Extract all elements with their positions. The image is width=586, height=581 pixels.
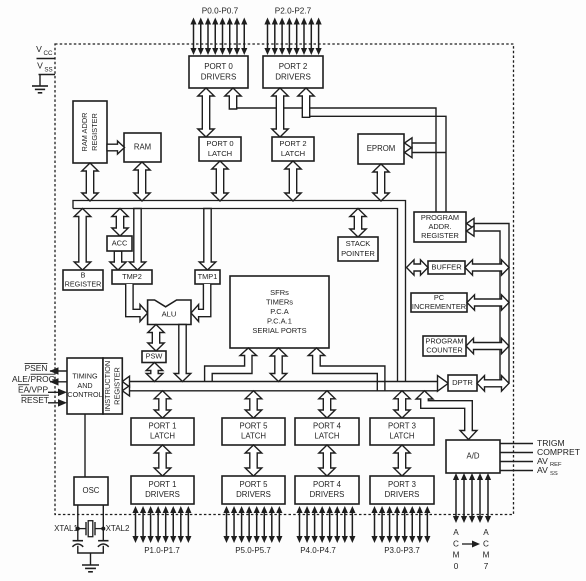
svg-text:LATCH: LATCH	[241, 432, 266, 441]
svg-text:M: M	[453, 551, 460, 560]
wire OSC to XTAL2	[102, 505, 104, 529]
arrow bus - B REGISTER	[74, 209, 91, 271]
pin arrow P2.2	[279, 18, 285, 56]
net label AVREF	[537, 456, 562, 468]
svg-text:PORT 5: PORT 5	[240, 421, 269, 430]
block PC INCREMENTER	[411, 293, 467, 312]
svg-text:PORT 0: PORT 0	[204, 62, 233, 71]
block PORT 2 LATCH	[272, 137, 314, 161]
wire AVSS	[500, 470, 533, 472]
main internal bus bar	[73, 201, 406, 382]
svg-text:PORT 4: PORT 4	[313, 421, 342, 430]
wire stub into EPROM upper	[409, 142, 436, 144]
svg-text:CC: CC	[44, 50, 53, 57]
pin arrow P3.0	[371, 506, 377, 543]
block INSTRUCTION REGISTER	[103, 358, 122, 414]
wire VCC to border	[37, 58, 56, 60]
block STACK POINTER	[338, 237, 378, 261]
svg-text:ADDR.: ADDR.	[429, 222, 452, 231]
arrow PC INCREMENTER - right bus	[467, 295, 509, 310]
svg-text:BUFFER: BUFFER	[431, 263, 462, 272]
pin arrow P5.1	[231, 506, 237, 543]
block A/D	[446, 440, 500, 473]
svg-text:REGISTER: REGISTER	[421, 231, 459, 240]
signal PSEN	[25, 363, 48, 373]
block PORT 4 LATCH	[295, 418, 359, 445]
block EPROM	[358, 134, 404, 164]
arrow SFR - bus wire	[270, 348, 287, 382]
svg-text:PORT 5: PORT 5	[240, 480, 269, 489]
pin arrow P1.3	[155, 506, 161, 543]
arrow bus - A/D (bent)	[416, 391, 477, 440]
arrow PORT2 DRIVERS - PORT2 LATCH	[272, 88, 288, 137]
pin arrow ACM2 analog input 2	[469, 473, 475, 523]
wire to ground	[90, 553, 92, 565]
svg-text:TIMING: TIMING	[72, 372, 98, 381]
svg-text:V: V	[36, 44, 42, 54]
block BUFFER	[428, 261, 465, 274]
pin arrow P4.3	[319, 506, 325, 543]
svg-text:P1.0-P1.7: P1.0-P1.7	[144, 546, 180, 555]
ALU	[148, 300, 191, 325]
pin arrow P3.6	[417, 506, 423, 543]
svg-text:SS: SS	[550, 471, 558, 477]
wire TIMING to OSC	[84, 414, 86, 477]
svg-text:DRIVERS: DRIVERS	[310, 490, 345, 499]
pin arrow P3.4	[402, 506, 408, 543]
arrow bus to TMP2 right	[129, 209, 146, 271]
pin arrow P0.2	[205, 18, 211, 56]
wire AVREF	[500, 461, 533, 463]
block PROGRAM COUNTER	[423, 336, 466, 356]
svg-text:ALE/: ALE/	[12, 374, 31, 384]
block PORT 5 DRIVERS	[222, 476, 285, 504]
svg-text:STACK: STACK	[346, 239, 371, 248]
block PORT 0 DRIVERS	[189, 56, 248, 88]
crystal	[76, 521, 106, 537]
wire XTAL2 to capacitor	[102, 529, 104, 541]
pin arrow P5.4	[254, 506, 260, 543]
capacitor C2	[98, 541, 109, 547]
arrow bus wire to SFR right (bent)	[308, 348, 385, 391]
block ACC	[107, 236, 132, 251]
pin arrow P0.1	[198, 18, 204, 56]
pin arrow P5.3	[246, 506, 252, 543]
block PORT 5 LATCH	[222, 418, 285, 445]
svg-text:SS: SS	[44, 67, 52, 74]
arrowhead RESET in	[58, 399, 67, 407]
svg-text:PORT 4: PORT 4	[313, 480, 342, 489]
svg-text:DRIVERS: DRIVERS	[385, 490, 420, 499]
wire stub into EPROM lower	[409, 152, 446, 154]
svg-text:0: 0	[454, 562, 459, 571]
svg-text:EPROM: EPROM	[367, 144, 396, 153]
pin arrow P1.6	[178, 506, 184, 543]
block PROGRAM ADDR REGISTER	[414, 212, 466, 242]
svg-text:PORT 2: PORT 2	[279, 62, 308, 71]
arrow bus - ACC	[112, 209, 128, 237]
pin arrow P4.1	[304, 506, 310, 543]
arrow PSW - bus wire	[146, 363, 163, 382]
pin arrow P0.5	[227, 18, 233, 56]
svg-text:DRIVERS: DRIVERS	[275, 72, 311, 81]
net label AVSS	[537, 465, 558, 477]
wire right bus inner to PROGRAM ADDR REGISTER	[471, 231, 500, 383]
arrowhead into PROGRAM ADDR REGISTER lower	[467, 226, 475, 236]
arrow ALU - PSW	[148, 325, 164, 352]
wire internal bus lower	[128, 390, 438, 392]
pin arrow P0.6	[234, 18, 240, 56]
wire VSS down to ground	[39, 75, 41, 87]
net label ACM7 (vertical)	[483, 528, 490, 571]
arrow ACC to TMP2	[110, 251, 126, 270]
pin arrow P3.1	[379, 506, 385, 543]
block B REGISTER	[63, 270, 103, 290]
pin arrow P0.0	[190, 18, 196, 56]
svg-text:P4.0-P4.7: P4.0-P4.7	[300, 546, 336, 555]
wire VSS to border	[39, 74, 56, 76]
pin arrow P1.1	[140, 506, 146, 543]
arrow RAM ADDR REGISTER - bus	[82, 163, 98, 201]
arrow PORT2 LATCH - bus	[285, 161, 301, 201]
arrow bus - PORT 5 LATCH	[245, 391, 262, 418]
arrow bus - STACK POINTER	[350, 209, 366, 238]
svg-text:LATCH: LATCH	[208, 149, 232, 158]
svg-text:PSEN: PSEN	[25, 363, 48, 373]
pin arrow P2.5	[301, 18, 307, 56]
pin arrow P3.2	[387, 506, 393, 543]
pin arrow ACM3 analog input 3	[477, 473, 483, 523]
ground (crystal)	[82, 565, 99, 572]
svg-text:RAM ADDR: RAM ADDR	[80, 112, 89, 151]
svg-text:TMP2: TMP2	[122, 272, 142, 281]
svg-text:P.C.A: P.C.A	[270, 307, 289, 316]
pin arrow P3.5	[409, 506, 415, 543]
svg-text:C: C	[483, 539, 489, 548]
svg-text:A/D: A/D	[467, 452, 480, 461]
svg-text:REGISTER: REGISTER	[65, 279, 102, 288]
arrowhead into EPROM lower	[405, 147, 413, 157]
net label ACM0 (vertical)	[453, 528, 460, 571]
svg-text:CONTROL: CONTROL	[67, 390, 102, 399]
svg-text:RAM: RAM	[134, 143, 151, 152]
arrow PORT 1 LATCH - PORT 1 DRIVERS	[154, 445, 171, 476]
svg-text:DPTR: DPTR	[452, 378, 473, 387]
svg-text:DRIVERS: DRIVERS	[236, 490, 271, 499]
svg-text:SERIAL PORTS: SERIAL PORTS	[252, 326, 306, 335]
signal ALE/PROG	[12, 374, 55, 384]
svg-text:LATCH: LATCH	[150, 432, 175, 441]
pin arrow P2.1	[272, 18, 278, 56]
arrow bus - BUFFER left	[407, 260, 429, 275]
arrow PORT2 DRIVERS from bus wire	[298, 88, 314, 117]
wire internal bus upper	[128, 381, 438, 383]
arrow PROGRAM COUNTER - right bus	[466, 338, 509, 354]
svg-text:P.C.A.1: P.C.A.1	[267, 316, 292, 325]
pin arrow ACM analog input 4	[485, 473, 491, 523]
svg-text:REF: REF	[550, 462, 562, 468]
arrowhead bus into DPTR	[438, 376, 449, 392]
svg-text:PORT 0: PORT 0	[206, 139, 233, 148]
arrow PORT 5 LATCH - PORT 5 DRIVERS	[245, 445, 262, 476]
pin arrow P5.6	[269, 506, 275, 543]
svg-text:P2.0-P2.7: P2.0-P2.7	[275, 7, 312, 16]
svg-text:ALU: ALU	[162, 310, 177, 319]
svg-text:INCREMENTER: INCREMENTER	[412, 302, 466, 311]
arrow bus to TMP1	[199, 209, 216, 271]
svg-text:PC: PC	[434, 293, 445, 302]
arrowhead bus into INSTRUCTION REGISTER upper	[122, 376, 129, 387]
svg-text:LATCH: LATCH	[315, 432, 340, 441]
arrowhead EA/VPP in	[58, 389, 67, 397]
block DPTR	[448, 375, 477, 391]
arrow RAM - bus	[134, 162, 150, 201]
arrow PORT 4 LATCH - PORT 4 DRIVERS	[319, 445, 335, 476]
pin arrow ACM1 analog input 1	[461, 473, 467, 523]
block PORT 1 LATCH	[131, 418, 194, 445]
arrow ACM0 to ACM7	[462, 543, 475, 545]
pin arrow P0.3	[212, 18, 218, 56]
pin arrow P1.2	[148, 506, 154, 543]
arrowhead ALE/PROG out	[50, 378, 59, 386]
svg-text:RESET: RESET	[21, 395, 49, 405]
pin arrow P4.2	[312, 506, 318, 543]
arrow DPTR - right bus	[477, 376, 509, 392]
signal EA/VPP	[18, 384, 48, 394]
pin arrow P2.7	[316, 18, 322, 56]
arrow bus wire to SFR left (bent)	[205, 348, 257, 382]
block OSC	[74, 477, 108, 505]
pin arrow P2.0	[264, 18, 270, 56]
wire bus P0 drivers to program addr register	[229, 108, 436, 212]
pin arrow P4.7	[349, 506, 355, 543]
pin arrow P3.7	[424, 506, 430, 543]
pin arrow P4.5	[334, 506, 340, 543]
pin arrow P4.6	[342, 506, 348, 543]
svg-text:PROGRAM: PROGRAM	[425, 336, 463, 345]
capacitor C1	[72, 541, 83, 547]
svg-text:AV: AV	[537, 465, 548, 475]
svg-text:SFRs: SFRs	[270, 288, 289, 297]
svg-text:PORT 3: PORT 3	[388, 421, 416, 430]
pin arrow P4.0	[296, 506, 302, 543]
arrow bus - PORT 3 LATCH	[394, 391, 410, 418]
ground (VSS)	[32, 86, 48, 93]
pin arrow P0.7	[241, 18, 247, 56]
svg-text:M: M	[483, 551, 490, 560]
VCC pin label	[36, 44, 53, 57]
svg-text:A: A	[483, 528, 489, 537]
svg-text:ACC: ACC	[112, 238, 128, 247]
svg-text:TMP1: TMP1	[198, 272, 218, 281]
arrow bus - PORT 4 LATCH	[319, 391, 335, 418]
pin arrow P5.2	[239, 506, 245, 543]
arrow ALU to bus wire	[174, 325, 191, 382]
arrow BUFFER - right bus	[465, 260, 509, 275]
svg-text:P0.0-P0.7: P0.0-P0.7	[202, 7, 239, 16]
arrowhead into EPROM upper	[405, 138, 413, 148]
arrow PORT 3 LATCH - PORT 3 DRIVERS	[394, 445, 410, 476]
arrow bus - PORT 1 LATCH	[154, 391, 171, 418]
pin arrow P0.4	[219, 18, 225, 56]
svg-text:INSTRUCTION: INSTRUCTION	[103, 361, 112, 412]
svg-text:C: C	[453, 539, 459, 548]
VSS pin label	[37, 61, 53, 74]
arrow TMP2 to ALU	[126, 284, 148, 322]
block TMP2	[112, 270, 152, 284]
block PORT 0 LATCH	[199, 137, 241, 161]
svg-text:7: 7	[484, 562, 489, 571]
chip boundary (dashed)	[55, 44, 514, 515]
arrowhead bus into INSTRUCTION REGISTER lower	[122, 386, 129, 396]
svg-text:XTAL1: XTAL1	[54, 524, 78, 533]
svg-text:REGISTER: REGISTER	[112, 367, 121, 405]
arrow RAM ADDR REGISTER to RAM	[107, 141, 125, 154]
block SFRs TIMERS PCA SERIAL PORTS	[230, 276, 329, 348]
svg-text:PSW: PSW	[146, 352, 163, 361]
svg-text:PORT 1: PORT 1	[149, 421, 177, 430]
pin arrow P5.5	[261, 506, 267, 543]
pin arrow P5.0	[223, 506, 229, 543]
block PORT 3 DRIVERS	[370, 476, 434, 504]
arrowhead PSEN out	[50, 367, 59, 375]
svg-text:PORT 2: PORT 2	[279, 139, 306, 148]
pin arrow P4.4	[327, 506, 333, 543]
svg-text:AND: AND	[77, 381, 92, 390]
block TIMING AND CONTROL	[67, 358, 103, 414]
block PORT 4 DRIVERS	[295, 476, 359, 504]
pin arrow P2.3	[286, 18, 292, 56]
pin arrow ACM0 analog input 0	[453, 473, 459, 523]
pin arrow P1.0	[132, 506, 138, 543]
svg-text:TIMERs: TIMERs	[266, 298, 293, 307]
pin arrow P1.5	[170, 506, 176, 543]
wire bus P2 drivers to program addr register	[302, 116, 446, 212]
svg-text:V: V	[37, 61, 43, 71]
signal RESET	[21, 395, 49, 405]
arrow PORT0 LATCH - bus	[212, 161, 228, 201]
wire right bus outer to PROGRAM ADDR REGISTER	[471, 224, 509, 384]
arrow PORT0 DRIVERS - PORT0 LATCH	[198, 88, 214, 137]
svg-text:/VPP: /VPP	[29, 384, 48, 394]
wire XTAL1 to capacitor	[77, 529, 79, 541]
svg-text:P3.0-P3.7: P3.0-P3.7	[384, 546, 420, 555]
svg-text:EA: EA	[18, 384, 30, 394]
block RAM ADDR REGISTER	[73, 101, 107, 163]
svg-text:POINTER: POINTER	[341, 249, 375, 258]
wire capacitors join	[78, 546, 104, 553]
block RAM	[124, 133, 161, 162]
pin arrow P3.3	[394, 506, 400, 543]
svg-text:OSC: OSC	[83, 486, 100, 495]
svg-text:XTAL2: XTAL2	[106, 524, 130, 533]
wire OSC to XTAL1	[77, 505, 79, 529]
arrow TMP1 to ALU	[191, 284, 211, 322]
wire TRIG	[500, 443, 533, 445]
pin arrow P2.4	[294, 18, 300, 56]
block PORT 2 DRIVERS	[263, 56, 323, 88]
wire COMP	[500, 452, 533, 454]
svg-text:B: B	[81, 270, 86, 279]
pin arrow P5.7	[276, 506, 282, 543]
arrow PORT0 DRIVERS from bus wire	[225, 88, 241, 109]
block PSW	[142, 351, 166, 363]
svg-text:P5.0-P5.7: P5.0-P5.7	[235, 546, 271, 555]
pin arrow P2.6	[308, 18, 314, 56]
svg-text:DRIVERS: DRIVERS	[145, 490, 180, 499]
block TMP1	[195, 270, 220, 284]
svg-text:DRIVERS: DRIVERS	[201, 72, 237, 81]
arrow EPROM - bus	[373, 164, 389, 201]
block PORT 1 DRIVERS	[131, 476, 194, 504]
svg-text:PORT 3: PORT 3	[388, 480, 416, 489]
svg-text:REGISTER: REGISTER	[90, 113, 99, 151]
pin arrow P1.4	[163, 506, 169, 543]
svg-text:LATCH: LATCH	[390, 432, 415, 441]
svg-text:PORT 1: PORT 1	[149, 480, 177, 489]
svg-text:COUNTER: COUNTER	[426, 346, 463, 355]
pin arrow P1.7	[185, 506, 191, 543]
svg-text:PROGRAM: PROGRAM	[421, 213, 459, 222]
svg-text:A: A	[453, 528, 459, 537]
arrowhead into PROGRAM ADDR REGISTER upper	[467, 218, 475, 228]
block PORT 3 LATCH	[370, 418, 434, 445]
svg-text:LATCH: LATCH	[281, 149, 305, 158]
